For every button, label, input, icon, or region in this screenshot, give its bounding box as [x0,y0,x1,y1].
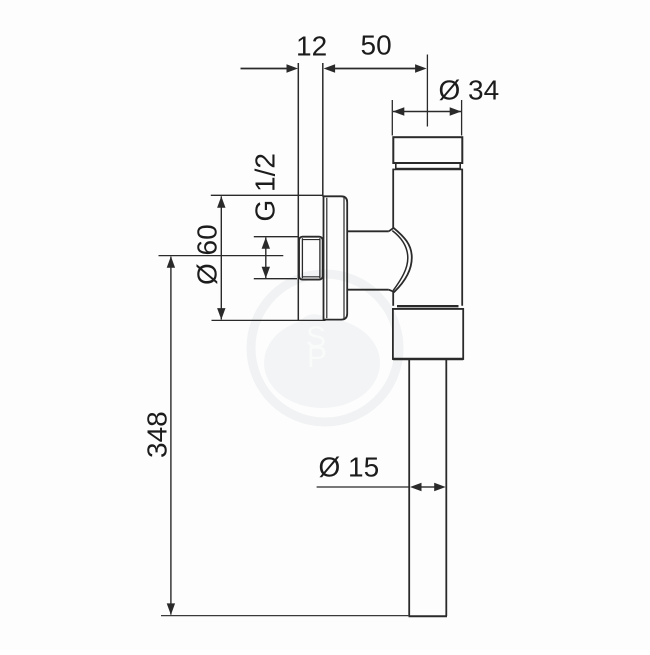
valve body joint groove lower [393,308,463,310]
dim 60 up arrowhead [217,196,225,208]
dim 50 left arrowhead [324,64,336,72]
nut facet left line [301,238,303,278]
svg-text:50: 50 [361,30,392,61]
dim 348 down arrowhead [167,603,175,615]
wall face line [297,63,299,320]
valve body right edge [461,169,463,306]
bonnet outer curve [389,228,412,292]
valve top cap [393,137,462,163]
dim 15 left arrowhead [410,483,422,491]
nut chamfer bottom line [302,276,320,278]
outlet pipe left edge [408,360,410,616]
watermark ring [251,274,399,422]
nut facet right line [319,238,321,278]
outlet pipe right edge [445,360,447,616]
svg-text:G 1/2: G 1/2 [250,153,281,221]
dim 60 down arrowhead [217,308,225,320]
outlet pipe bottom edge [409,615,448,617]
valve center line horizontal [159,255,284,257]
dim G12 down arrowhead [262,267,270,279]
dim 15 leader line [317,486,410,488]
nut chamfer top line [302,239,320,241]
valve lower body bottom edge [393,358,463,360]
dim 34 right extension line [461,100,463,136]
dim 50 right arrowhead [415,64,427,72]
dim 15 arrow connector [420,486,436,488]
dim 348 line [170,257,172,615]
watermark drop blob [264,318,380,408]
dim 34 right arrowhead [450,107,462,115]
bonnet inner curve [392,231,408,291]
svg-text:Ø 60: Ø 60 [192,224,223,285]
vertical center line top [426,55,428,127]
dim 60 line [220,196,222,319]
svg-text:P: P [307,341,327,374]
dim 34 left extension line [391,100,393,136]
inlet tube bottom edge [347,289,389,291]
svg-text:Ø 34: Ø 34 [439,75,500,106]
dim 60 top extension line [211,194,323,196]
dim 15 right arrowhead [434,483,446,491]
dim 12 leader line [241,68,289,70]
valve body left edge upper [392,169,394,229]
dim G12 line [265,238,267,279]
dim 348 up arrowhead [167,256,175,268]
svg-text:348: 348 [142,411,173,458]
dim 34 line [393,111,461,113]
dim 60 bottom extension line [212,319,326,321]
dim G12 bottom extension line [254,278,297,280]
valve body top edge [393,168,462,170]
svg-text:Ø 15: Ø 15 [319,452,380,483]
svg-text:12: 12 [296,31,327,62]
flange inner right line [343,198,345,319]
dim 50 line [334,68,417,70]
hex nut body [299,237,323,280]
watermark drop tip [290,314,334,344]
dim G12 top extension line [254,236,298,238]
dim 12 arrowhead [287,64,299,72]
dim G12 up arrowhead [262,237,270,249]
valve lower body [393,309,463,359]
flange back extension line [322,63,324,197]
inlet tube top edge [347,230,389,232]
bottom extension line [161,615,409,617]
valve body left edge lower [392,292,394,306]
valve cap ring [396,163,460,169]
flange inner left line [326,198,328,318]
wall flange plate [324,196,348,319]
dim 34 left arrowhead [393,107,405,115]
valve body joint groove upper [397,305,459,307]
